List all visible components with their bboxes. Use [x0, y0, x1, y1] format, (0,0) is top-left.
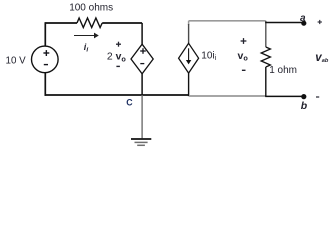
wire 10i top lead	[188, 21, 190, 25]
svg-text:C: C	[126, 98, 133, 108]
svg-text:10 V: 10 V	[6, 56, 27, 67]
svg-text:b: b	[301, 100, 308, 112]
resistor 100 ohms zigzag	[77, 18, 102, 28]
wire top-left horizontal	[45, 22, 77, 24]
arrow inside 10i pointing down	[186, 48, 191, 64]
plus left of 2vo	[116, 42, 121, 47]
minus inside 2vo	[140, 63, 144, 65]
minus terminal b	[316, 96, 319, 98]
node a dot	[301, 21, 306, 26]
dependent source 2vo diamond	[131, 44, 153, 74]
resistor 1 ohm zigzag	[261, 47, 270, 67]
wire top-right black to node a	[265, 22, 304, 24]
wire bottom-right black to node b	[265, 95, 304, 97]
plus inside source	[43, 50, 49, 56]
node b dot	[301, 94, 306, 99]
wire 2vo bottom lead	[141, 74, 143, 95]
wire 1ohm bottom lead	[265, 67, 267, 97]
minus inside source	[44, 64, 48, 66]
svg-text:1 ohm: 1 ohm	[269, 65, 297, 76]
plus terminal a	[318, 20, 322, 24]
wire bottom black	[45, 94, 190, 96]
plus inside 2vo	[140, 48, 146, 54]
node C vertical grey lead to ground	[141, 95, 143, 138]
plus left of 1ohm	[241, 38, 247, 44]
wire left vertical lower	[44, 73, 46, 96]
wire left vertical upper	[44, 22, 46, 46]
ground symbol	[131, 139, 151, 145]
wire resistor to corner	[102, 22, 142, 24]
voltage source 10V circle	[32, 46, 59, 73]
current arrow i_i	[74, 33, 99, 39]
wire 2vo top lead	[141, 23, 143, 44]
minus left of 2vo	[116, 65, 120, 67]
wire 1ohm top lead	[265, 21, 267, 47]
dependent current source 10i diamond	[179, 43, 199, 73]
minus left of 1ohm	[242, 69, 246, 71]
svg-text:10ii: 10ii	[201, 51, 216, 63]
svg-text:a: a	[300, 13, 306, 24]
wire 10i bottom lead	[188, 73, 190, 96]
wire bottom grey segment	[189, 95, 266, 97]
svg-text:100 ohms: 100 ohms	[69, 3, 113, 14]
wire top grey segment	[189, 20, 266, 22]
